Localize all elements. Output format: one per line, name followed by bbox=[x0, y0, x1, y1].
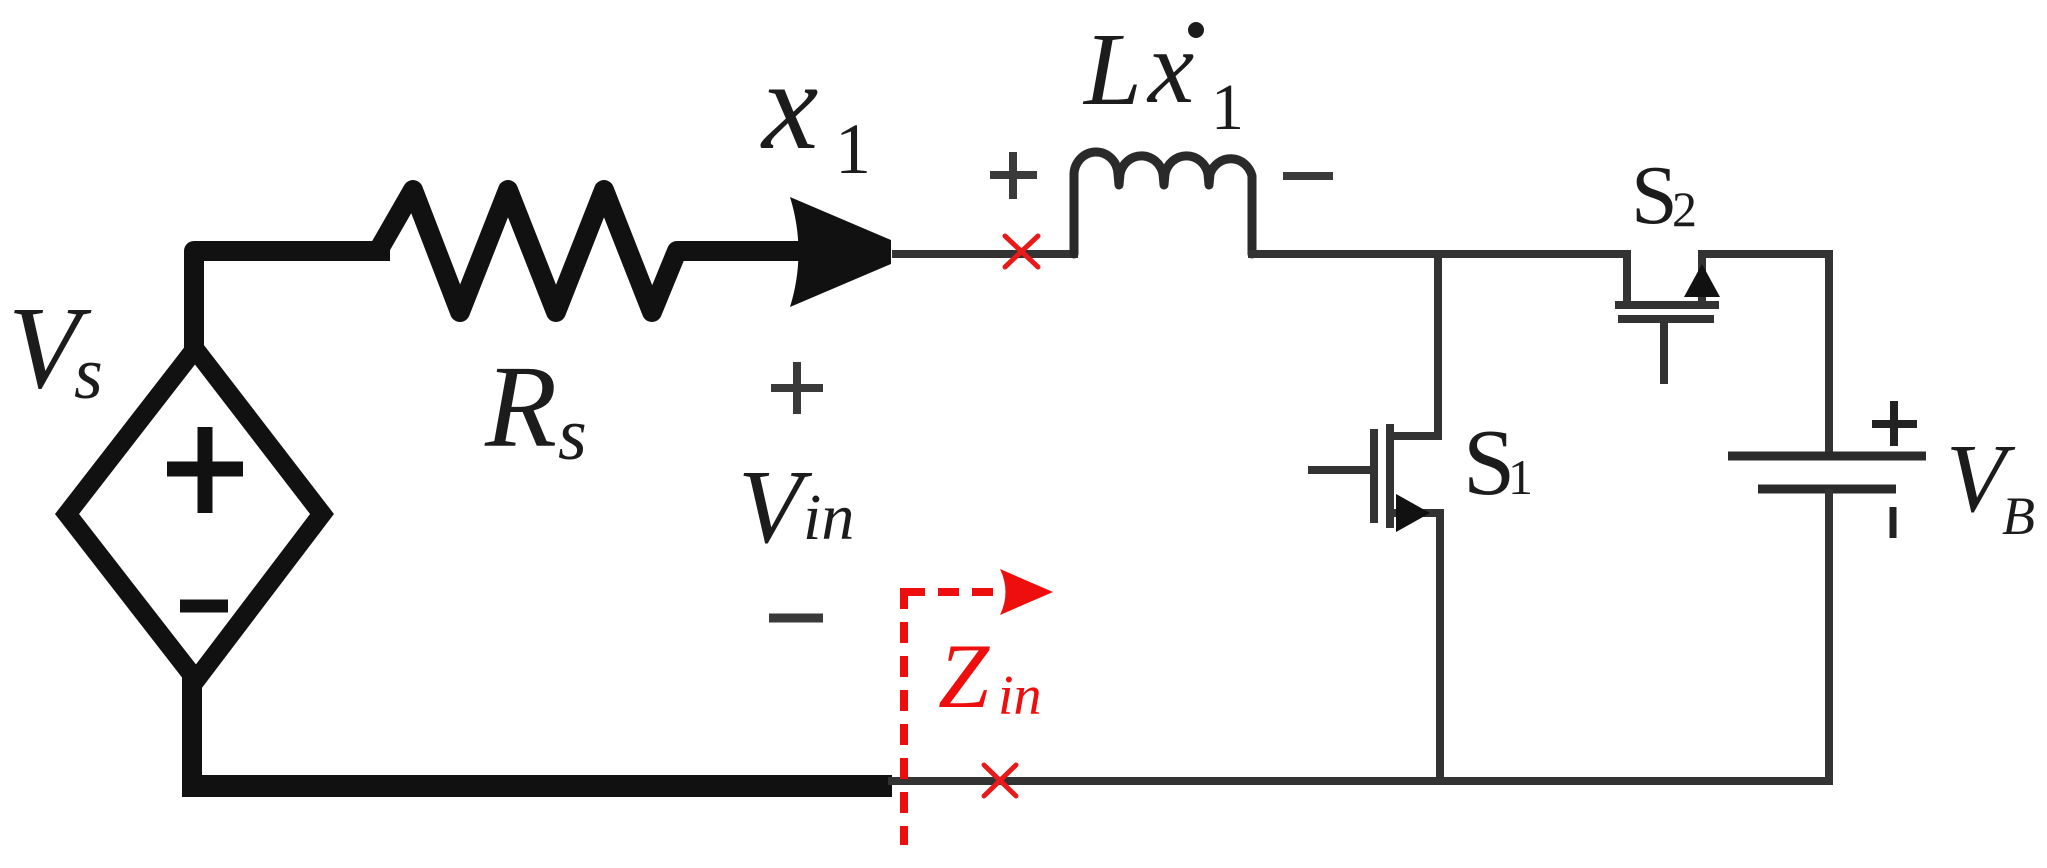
resistor Rs zigzag bbox=[378, 190, 810, 312]
wire: S2 to battery top bbox=[1698, 254, 1829, 456]
svg-text:R: R bbox=[484, 341, 557, 472]
battery VB bottom plate bbox=[1758, 485, 1896, 494]
svg-text:1: 1 bbox=[1508, 449, 1533, 505]
label Rs bbox=[484, 341, 587, 476]
gate bar bbox=[1618, 315, 1714, 323]
label S2 bbox=[1631, 149, 1697, 242]
gate lead bbox=[1308, 466, 1374, 474]
wire: thin from arrow to inductor bbox=[892, 250, 1078, 258]
S1 arrow bbox=[1396, 494, 1430, 532]
svg-text:x: x bbox=[1146, 10, 1194, 125]
wire: battery bottom to rail bbox=[1825, 489, 1833, 785]
svg-text:x: x bbox=[760, 36, 818, 176]
svg-text:2: 2 bbox=[1672, 181, 1697, 237]
label VB bbox=[1946, 425, 2035, 546]
gate lead bbox=[1660, 319, 1668, 384]
inductor L (risers + 4 humps) bbox=[1074, 152, 1252, 254]
polarity plus (left of inductor) bbox=[990, 152, 1037, 199]
polarity plus (Vin +) bbox=[771, 362, 823, 414]
wire: source bottom to bottom rail bbox=[182, 674, 202, 780]
measurement Zin: dashed horizontal with arrow bbox=[904, 588, 1005, 596]
label x1 bbox=[760, 36, 871, 189]
svg-text:L: L bbox=[1082, 12, 1142, 127]
polarity minus (Vin -) bbox=[769, 614, 823, 623]
measurement Zin: dashed vertical bbox=[900, 588, 908, 845]
node marker: red x on bottom rail bbox=[984, 765, 1016, 796]
transistor S2 (PMOS, horizontal) bbox=[1615, 250, 1719, 384]
svg-text:in: in bbox=[803, 481, 854, 554]
gate bar bbox=[1370, 429, 1378, 523]
channel bar bbox=[1386, 424, 1394, 528]
Zin arrowhead bbox=[1000, 569, 1053, 615]
S2 arrow bbox=[1684, 264, 1720, 297]
left lead bbox=[1623, 250, 1631, 305]
svg-text:Z: Z bbox=[938, 625, 990, 727]
voltage source Vs (dependent, diamond) bbox=[67, 349, 322, 680]
label L x-dot 1 bbox=[1082, 10, 1244, 144]
label Vs bbox=[8, 282, 103, 415]
battery plus bbox=[1872, 401, 1917, 446]
label Vin bbox=[738, 448, 854, 565]
svg-text:1: 1 bbox=[835, 109, 871, 189]
wire: inductor to S2, with S1 tap node bbox=[1248, 250, 1631, 258]
svg-text:B: B bbox=[2002, 486, 2035, 546]
wire: bottom rail thin bbox=[888, 777, 1833, 785]
transistor S1 (NMOS) bbox=[1308, 250, 1440, 785]
channel bar bbox=[1615, 301, 1719, 309]
minus sign inside Vs bbox=[180, 600, 228, 613]
wire: top-left vertical from source to top rail bbox=[194, 251, 380, 352]
battery minus tick bbox=[1890, 507, 1897, 538]
svg-text:V: V bbox=[738, 448, 813, 565]
polarity minus (right of inductor) bbox=[1283, 172, 1333, 180]
svg-text:s: s bbox=[74, 333, 103, 415]
svg-text:s: s bbox=[558, 394, 587, 476]
source lead + vertical bbox=[1392, 513, 1440, 785]
node marker: red x on top wire bbox=[1005, 236, 1038, 267]
svg-text:in: in bbox=[998, 665, 1042, 727]
label S1 bbox=[1463, 411, 1533, 515]
svg-text:1: 1 bbox=[1211, 71, 1244, 144]
label Zin bbox=[938, 625, 1042, 727]
right lead bbox=[1698, 254, 1706, 305]
current arrow x1 head bbox=[790, 197, 891, 307]
svg-text:S: S bbox=[1631, 149, 1678, 242]
drain vertical bbox=[1392, 250, 1438, 436]
wire: bottom rail thick bbox=[182, 775, 892, 797]
plus sign inside Vs bbox=[167, 427, 243, 513]
battery VB top plate bbox=[1728, 452, 1926, 461]
